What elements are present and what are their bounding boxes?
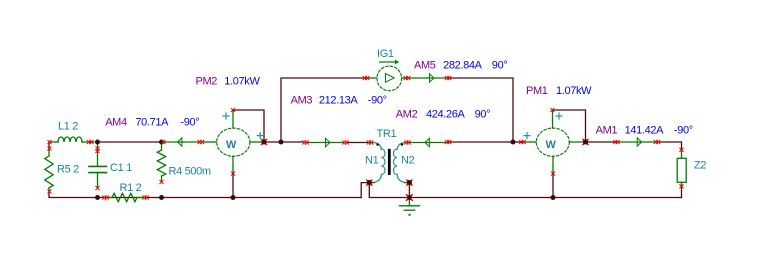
wire AM2 right to node D — [449, 141, 514, 143]
svg-text:PM1: PM1 — [526, 85, 548, 97]
junction node N1 bottom — [367, 180, 372, 185]
svg-text:R5 2: R5 2 — [57, 164, 79, 176]
impedance Z2 — [677, 150, 686, 187]
junction node top branch right — [511, 140, 516, 145]
junction node PM1 bottom — [551, 195, 556, 200]
svg-text:70.71A: 70.71A — [135, 116, 169, 128]
svg-text:AM3: AM3 — [291, 95, 313, 107]
label AM3 row — [291, 95, 387, 107]
wire PM1 bottom to rail — [552, 174, 554, 198]
plus sign PM2 voltage — [223, 113, 229, 119]
wire PM1 voltage bracket — [553, 110, 586, 142]
label Z2 — [694, 159, 706, 171]
wire AM3 right to TR1 primary — [347, 142, 370, 144]
ammeter AM3 arrow segment — [307, 138, 345, 146]
wire PM2 bottom to rail — [232, 174, 234, 198]
terminal crosses — [48, 76, 683, 200]
wire N2 bottom vertical — [408, 183, 410, 198]
junction node PM2 bottom — [231, 195, 236, 200]
svg-text:424.26A: 424.26A — [426, 108, 466, 120]
junction node R4 top — [159, 140, 164, 145]
label R4 — [169, 165, 211, 177]
wire node D to PM1 left — [513, 141, 523, 143]
svg-text:IG1: IG1 — [377, 48, 394, 60]
transformer TR1 core — [388, 149, 391, 175]
wattmeter PM1 — [524, 110, 586, 174]
svg-text:-90°: -90° — [674, 125, 693, 137]
transformer TR1 secondary winding N2 — [394, 143, 410, 183]
svg-text:212.13A: 212.13A — [319, 95, 359, 107]
svg-text:AM4: AM4 — [105, 116, 127, 128]
svg-text:90°: 90° — [475, 108, 491, 120]
svg-text:1.07kW: 1.07kW — [556, 85, 592, 97]
capacitor C1 — [89, 144, 107, 188]
wire node C to AM3 left — [264, 141, 305, 143]
ammeter AM2 arrow segment — [410, 138, 447, 146]
transformer TR1 primary winding N1 — [370, 143, 385, 183]
junction node PM1 V-tap — [583, 140, 588, 145]
ammeter AM4 arrow segment — [163, 138, 199, 146]
plus sign PM1 left terminal — [524, 133, 530, 139]
label IG1 — [377, 48, 394, 60]
wire top-left corner to R5 top — [48, 142, 50, 150]
wire N1 bottom down and rail to ground node — [369, 183, 409, 198]
IG1 direction arrow — [380, 60, 399, 65]
svg-text:C1 1: C1 1 — [110, 162, 132, 174]
label N1 — [365, 154, 379, 166]
svg-text:282.84A: 282.84A — [443, 60, 483, 72]
svg-text:W: W — [546, 139, 557, 151]
wire top branch left riser to IG1 — [281, 78, 366, 142]
svg-text:N1: N1 — [365, 154, 379, 166]
wire top branch right to node D — [449, 78, 514, 142]
plus sign PM1 voltage — [556, 113, 562, 119]
wire Z2 bottom to rail — [681, 187, 683, 198]
label N2 — [401, 154, 415, 166]
label AM1 row — [596, 125, 693, 137]
label AM5 row — [414, 60, 507, 72]
label AM2 row — [396, 108, 490, 120]
ammeter AM1 arrow segment — [618, 138, 656, 146]
svg-text:-90°: -90° — [368, 95, 387, 107]
wire node A to node B on main line — [98, 141, 162, 143]
ammeter AM5 arrow segment — [409, 74, 447, 82]
label R1 — [120, 182, 142, 194]
label TR1 — [377, 128, 397, 140]
label R5 — [57, 164, 79, 176]
label PM2 row — [196, 75, 261, 87]
label PM1 row — [526, 85, 592, 97]
plus sign PM2 right terminal — [257, 133, 263, 139]
svg-text:R1 2: R1 2 — [120, 182, 142, 194]
svg-text:1.07kW: 1.07kW — [224, 75, 260, 87]
junction node PM2 V-tap — [262, 140, 267, 145]
svg-text:AM1: AM1 — [596, 125, 618, 137]
svg-text:90°: 90° — [492, 60, 508, 72]
svg-text:AM5: AM5 — [414, 60, 436, 72]
label AM4 row — [105, 116, 199, 128]
svg-text:R4 500m: R4 500m — [169, 165, 211, 177]
svg-text:PM2: PM2 — [196, 75, 218, 87]
resistor R4 — [157, 143, 165, 182]
junction node ground rail — [407, 195, 412, 200]
wire AM1 right to Z2 top — [658, 142, 682, 150]
svg-text:L1 2: L1 2 — [58, 121, 78, 133]
resistor R1 — [107, 193, 144, 201]
inductor L1 — [50, 137, 94, 142]
TR1 polarity dot N1 — [376, 143, 378, 145]
svg-text:141.42A: 141.42A — [625, 125, 665, 137]
svg-text:AM2: AM2 — [396, 108, 418, 120]
TR1 polarity dot N2 — [401, 143, 403, 145]
junction node L1/C1 — [95, 140, 100, 145]
junction node N2 bottom — [407, 180, 412, 185]
junction node C1 bottom — [95, 195, 100, 200]
wire jog up to N1 bottom — [361, 183, 369, 198]
wire left rail: R5 bottom down and bottom rail to jog — [49, 192, 361, 198]
svg-text:W: W — [226, 139, 237, 151]
wire bottom rail right section — [409, 197, 681, 199]
resistor R5 — [45, 150, 53, 192]
wire PM1 right to AM1 left — [586, 141, 617, 143]
current source IG1 — [367, 66, 407, 91]
label L1 — [58, 121, 78, 133]
wattmeter PM2 — [203, 110, 263, 174]
junction node top branch left — [279, 140, 284, 145]
svg-text:-90°: -90° — [180, 116, 199, 128]
svg-text:Z2: Z2 — [694, 159, 706, 171]
svg-text:N2: N2 — [401, 154, 415, 166]
wire PM2 voltage bracket — [233, 110, 264, 142]
svg-text:TR1: TR1 — [377, 128, 397, 140]
ground — [400, 199, 420, 216]
label C1 — [110, 162, 132, 174]
junction node R4 bottom — [159, 195, 164, 200]
